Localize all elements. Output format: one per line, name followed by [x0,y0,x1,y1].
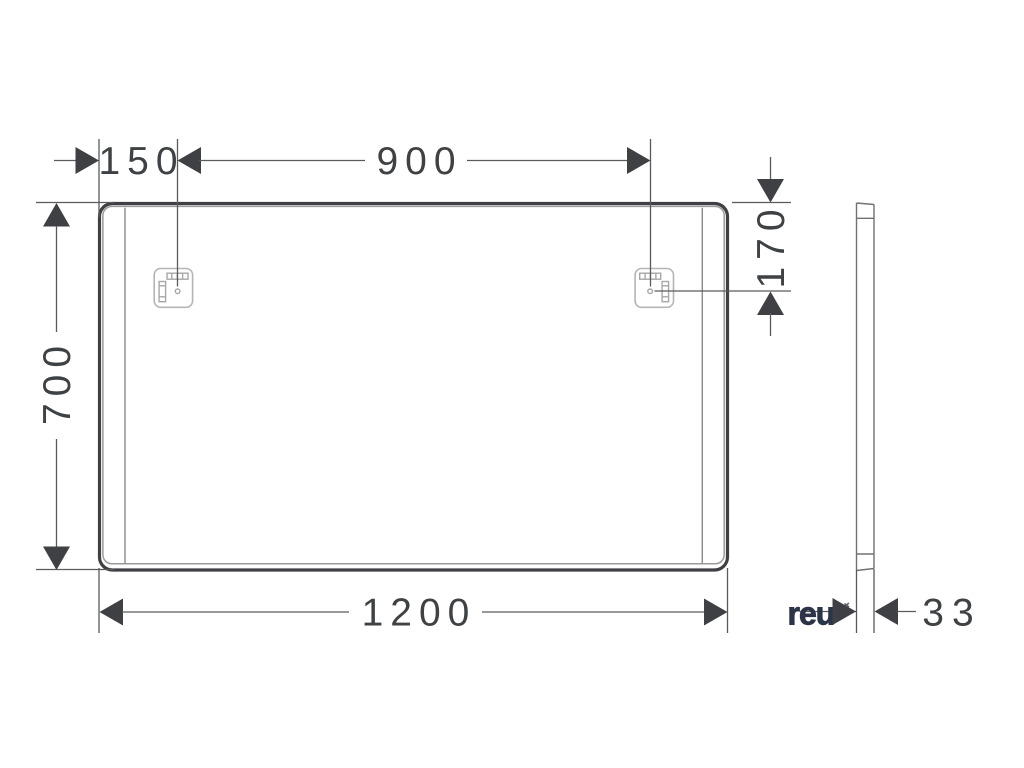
dimension 900 label [376,140,462,183]
dimension 1200 line left segment [122,611,349,613]
extension line left mirror edge (top) [98,139,100,217]
dimension 700 bottom arrow [43,547,70,571]
dimension 150 leader tail [54,160,76,162]
side view extension line right (33 dim) [873,569,875,633]
side view extension line left (33 dim) [856,570,858,633]
extension line bottom left (1200 dim) [98,568,100,633]
dimension 33 left leader under logo [800,611,856,613]
svg-text:reu: reu [788,596,835,632]
right mounting bracket [635,269,673,308]
reuter watermark logo [788,596,850,632]
svg-text:700: 700 [36,339,79,425]
dimension 150 label [98,140,184,183]
svg-text:1200: 1200 [362,592,477,635]
dimension 1200 right arrow [704,599,728,626]
left mounting bracket [154,269,192,308]
dimension 1200 left arrow [100,599,124,626]
dimension 1200 label [362,592,477,635]
dimension 900 left arrow [178,147,202,174]
dimension 700 line lower segment [56,439,58,547]
dimension 170 top tail [770,157,772,181]
dimension 700 line upper segment [56,226,58,332]
dimension 700 label (rotated) [36,339,79,425]
dimension 170 bottom tail [770,313,772,336]
dimension 700 top arrow [43,203,70,227]
dimension 150 left arrow [76,147,100,174]
mirror front view outer outline [100,204,728,571]
mirror inner right edge line [701,208,703,564]
extension line left bracket center [177,139,179,287]
mirror front view inner outline [103,206,724,563]
dimension 170 top arrow [757,179,784,203]
dimension 1200 line right segment [482,611,705,613]
dimension 33 right tail [897,611,916,613]
extension line right bracket circle (170 dim) [655,290,792,292]
dimension 900 line left segment [199,160,365,162]
svg-text:33: 33 [922,592,981,635]
mirror inner left edge line [124,208,126,564]
extension line bottom edge (700 dim) [36,569,114,571]
svg-text:150: 150 [98,140,184,183]
dimension 170 label (rotated) [750,202,793,288]
extension line top edge right (170 dim) [732,202,791,204]
dimension 33 right arrow [875,598,899,625]
dimension 170 bottom arrow [757,292,784,316]
side view outline [857,203,875,571]
dimension 900 line right segment [467,160,628,162]
dimension 33 label [922,592,981,635]
dimension 33 left arrow [833,598,857,625]
extension line right bracket center [650,139,652,287]
extension line bottom right (1200 dim) [727,568,729,633]
svg-text:900: 900 [376,140,462,183]
dimension 900 right arrow [627,147,651,174]
extension line top edge (700 dim) [36,202,114,204]
svg-text:170: 170 [750,202,793,288]
